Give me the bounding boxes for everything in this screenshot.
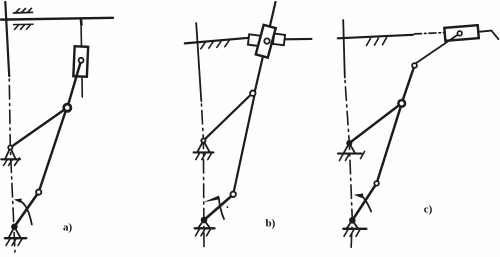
svg-text:b): b) <box>266 218 276 230</box>
svg-text:a): a) <box>63 222 73 234</box>
svg-text:c): c) <box>424 203 433 215</box>
